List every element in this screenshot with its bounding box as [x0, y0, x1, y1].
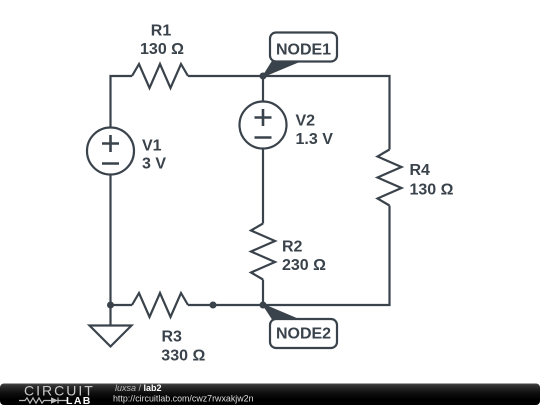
svg-text:130 Ω: 130 Ω — [140, 41, 184, 58]
voltage source V1 — [87, 128, 134, 175]
svg-text:luxsa / lab2: luxsa / lab2 — [115, 383, 162, 393]
svg-text:3 V: 3 V — [142, 156, 166, 173]
resistor R1 — [132, 64, 188, 88]
wire left rail lower segment — [109, 175, 111, 306]
node dot NODE1 junction — [260, 73, 267, 80]
ground — [90, 326, 132, 347]
svg-text:NODE1: NODE1 — [276, 42, 331, 59]
footer bar — [0, 384, 540, 405]
V1 plus sign — [102, 135, 119, 152]
wire V2 bottom lead to R2 — [262, 149, 264, 224]
node flag NODE2 pointer — [263, 305, 299, 320]
node flag NODE2 box — [270, 319, 337, 348]
svg-text:330 Ω: 330 Ω — [161, 348, 205, 365]
wire V2 top lead — [262, 76, 264, 102]
svg-text:V2: V2 — [296, 113, 316, 130]
svg-text:R4: R4 — [410, 162, 431, 179]
V2 minus sign — [255, 136, 272, 139]
logo resistor squiggle and diode — [19, 398, 67, 404]
node dot left bottom junction — [107, 302, 114, 309]
svg-text:R2: R2 — [282, 239, 303, 256]
svg-text:NODE2: NODE2 — [276, 326, 331, 343]
V2 plus sign — [255, 109, 272, 126]
node dot R3 right terminal — [210, 302, 217, 309]
V1 minus sign — [102, 162, 119, 165]
wire top-left corner and left rail upper segment — [111, 76, 133, 128]
wire R2 bottom lead — [262, 280, 264, 306]
svg-text:R3: R3 — [162, 329, 183, 346]
wire top rail from R1 to top-right corner down to R4 — [188, 76, 390, 150]
svg-text:1.3 V: 1.3 V — [296, 131, 334, 148]
node flag NODE1 pointer — [263, 61, 299, 76]
svg-text:V1: V1 — [142, 138, 162, 155]
svg-text:http://circuitlab.com/cwz7rwxa: http://circuitlab.com/cwz7rwxakjw2n — [113, 393, 254, 404]
wire ground stub — [109, 305, 111, 326]
node flag NODE1 box — [270, 33, 337, 62]
wire bottom-left from R3 to left rail — [111, 304, 133, 306]
resistor R2 — [251, 224, 275, 280]
logo diode triangle — [51, 397, 58, 403]
svg-text:R1: R1 — [151, 22, 172, 39]
node dot NODE2 junction — [260, 302, 267, 309]
svg-text:230 Ω: 230 Ω — [282, 257, 326, 274]
resistor R4 — [378, 150, 402, 206]
voltage source V2 — [240, 102, 287, 149]
svg-text:130 Ω: 130 Ω — [410, 182, 454, 199]
resistor R3 — [132, 293, 188, 317]
svg-text:LAB: LAB — [66, 395, 92, 405]
wire right rail below R4, bottom rail to R3 — [188, 206, 390, 306]
